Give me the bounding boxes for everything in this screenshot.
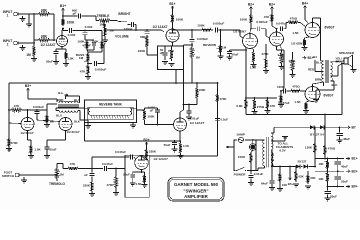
wire 68K to V1a grid [54, 39, 56, 41]
diode BY127 c [296, 165, 300, 169]
capacitor 50uF osc cathode [123, 172, 135, 183]
capacitor 0.002 series [68, 28, 76, 37]
wire recovery plate [180, 105, 184, 119]
svg-text:6.3V: 6.3V [279, 149, 285, 153]
wire tank out [137, 108, 145, 110]
svg-text:BY127: BY127 [298, 160, 307, 164]
phase inverter coupling [277, 46, 285, 91]
capacitor 20uF a [334, 171, 348, 186]
capacitor 0.2uF tremolo [215, 118, 228, 122]
capacitor 64uF doubler [261, 166, 274, 187]
supply B1+ reverb primary [58, 91, 68, 96]
node plate to 600pF tap [62, 15, 64, 18]
svg-text:100K: 100K [197, 24, 205, 28]
svg-text:SPEAKER: SPEAKER [339, 51, 355, 55]
ground 64uF [269, 188, 275, 191]
V2b cathode resistor 1.5K [277, 46, 284, 70]
svg-text:0.005uF: 0.005uF [95, 68, 107, 72]
reverb tank box [85, 100, 137, 123]
supply B3+ reverb [25, 84, 31, 96]
svg-text:64uF: 64uF [261, 181, 268, 185]
wire PT HV bottom [270, 149, 273, 151]
svg-text:BLU: BLU [74, 98, 80, 102]
ground speaker [351, 67, 357, 73]
svg-text:40uF: 40uF [341, 165, 348, 169]
wire V1b plate up [172, 24, 174, 31]
wire bass bottom [87, 63, 92, 65]
svg-text:B3+: B3+ [25, 84, 31, 88]
svg-text:0.005uF: 0.005uF [197, 37, 208, 41]
resistor 100K V1a plate [61, 18, 75, 26]
triode V2a 1/2 6SN7 [233, 29, 257, 48]
title box GARNET MODEL 590 [168, 178, 224, 201]
wire V2b plate [272, 23, 277, 32]
wire treble wiper to volume [104, 25, 105, 27]
wire V2a cathode feedback [245, 49, 247, 98]
supply arrow B1+ rail1 [344, 126, 356, 130]
resistor 1.5K 6V6 lower cathode [294, 100, 310, 113]
svg-text:68K: 68K [41, 35, 48, 39]
wire feedback bus [245, 97, 277, 99]
resistor 1M reverb [45, 110, 54, 124]
svg-text:BLK: BLK [74, 120, 80, 124]
label BLK reverb tx bot [74, 120, 80, 124]
capacitor 0.01uF line [249, 171, 264, 183]
svg-text:2: 2 [7, 43, 9, 47]
resistor 68K lower [34, 35, 55, 42]
supply B1+ second stage [169, 2, 175, 13]
tank ground [130, 123, 136, 129]
svg-text:1.5K: 1.5K [294, 100, 301, 104]
wire V4a plate [24, 104, 57, 118]
resistor 470 ohm riser [323, 115, 335, 160]
svg-text:pF: pF [73, 12, 77, 16]
resistor 47K V2b plate [264, 13, 274, 23]
wire volume wiper [110, 29, 148, 31]
svg-text:1M: 1M [79, 56, 84, 60]
capacitor 20uF b [324, 187, 337, 199]
fuse 1AMP [236, 132, 245, 142]
wire tone to bass pot [87, 40, 99, 52]
svg-text:1M: 1M [26, 53, 31, 57]
svg-text:50uF: 50uF [231, 52, 238, 56]
svg-text:B4+: B4+ [302, 1, 308, 5]
ground 470K [6, 149, 12, 152]
resistor 10K bias [277, 166, 288, 192]
resistor 100K recovery plate [184, 82, 207, 104]
svg-text:47K: 47K [14, 104, 20, 108]
ground osc 50uF [130, 183, 136, 186]
svg-text:470K: 470K [261, 52, 269, 56]
power tube 6V6GT upper [305, 23, 335, 38]
svg-text:BLU: BLU [56, 114, 62, 118]
wire B4+ screen [305, 14, 308, 23]
wire input2 to grid bus [20, 42, 34, 44]
svg-text:470Ω: 470Ω [328, 147, 336, 151]
svg-text:uF: uF [150, 108, 154, 112]
resistor 275 ohm [253, 98, 265, 111]
HV center tap ground [271, 136, 288, 141]
svg-text:220K: 220K [138, 49, 146, 53]
switch POWER [234, 167, 247, 176]
svg-text:33K: 33K [310, 176, 316, 180]
svg-text:B2+: B2+ [269, 2, 275, 6]
capacitor 0.025uF [251, 20, 270, 38]
svg-text:470K: 470K [107, 183, 115, 187]
svg-text:50uF: 50uF [164, 143, 171, 147]
svg-text:6.8K: 6.8K [236, 104, 243, 108]
supply B2+ V2b [269, 2, 275, 13]
svg-text:63K: 63K [298, 174, 304, 178]
svg-text:B1+: B1+ [60, 4, 66, 8]
wire tx secondary blk [78, 111, 88, 126]
wire volume to V1b grid [147, 30, 164, 32]
wire bright left [117, 21, 120, 22]
svg-text:0.001uF: 0.001uF [33, 105, 44, 109]
svg-text:REVERB TANK: REVERB TANK [99, 103, 122, 107]
svg-text:BY127 X4: BY127 X4 [310, 133, 324, 137]
wire V4 grid b [37, 118, 60, 122]
svg-text:6V6GT: 6V6GT [324, 25, 334, 29]
svg-text:RED: RED [58, 98, 64, 102]
svg-text:1/2 6CG7: 1/2 6CG7 [20, 131, 34, 135]
capacitor 470pF tone [82, 40, 96, 50]
svg-text:1/2 12AX7: 1/2 12AX7 [40, 43, 55, 47]
wire 600pF to treble [82, 16, 97, 21]
wire slope cap down [85, 35, 87, 40]
cathode join wires [28, 131, 66, 145]
wire plate to coupling [63, 29, 68, 31]
wire V1b cathode into box [172, 42, 174, 46]
ground input bus [26, 14, 32, 27]
capacitor 50uF reverb cathode [45, 144, 57, 155]
svg-text:REVERB: REVERB [203, 43, 217, 47]
wire tx secondary to tank [56, 108, 85, 111]
svg-text:B0+: B0+ [352, 185, 358, 189]
capacitor 600pF [72, 9, 81, 19]
svg-text:0.047uF: 0.047uF [115, 150, 126, 154]
resistor 1.5K cathode box [168, 46, 175, 61]
triode V4a 1/2 6CG7 [20, 118, 34, 135]
wire tank return long [85, 123, 181, 142]
svg-text:100K: 100K [176, 18, 184, 22]
resistor 470K foot bus [7, 137, 18, 148]
svg-text:B1+: B1+ [352, 157, 358, 161]
wire recovery cathode [174, 131, 181, 142]
resistor 150K lamp [238, 150, 253, 171]
svg-text:470K: 470K [220, 97, 228, 101]
resistor 470K phase [107, 169, 119, 196]
tank output coil [130, 108, 137, 115]
capacitor 0.047uF phase1 [102, 162, 125, 171]
ground osc 1.5K [142, 185, 148, 188]
diode BY127 d [272, 160, 315, 169]
supply arrow B5+ rail4 [346, 185, 358, 189]
resistor 220K tremolo plate [145, 148, 157, 160]
triode V4b 1/2 6CG7 [59, 118, 80, 134]
wire reverb node to V2a grid [221, 30, 244, 38]
capacitor 0.047uF lower [278, 89, 289, 106]
svg-text:1/2 6SN7: 1/2 6SN7 [291, 42, 304, 46]
svg-text:AMPLIFIER: AMPLIFIER [184, 194, 208, 199]
svg-text:680pF: 680pF [140, 35, 149, 39]
svg-text:B1+: B1+ [58, 91, 64, 95]
svg-text:220K: 220K [83, 183, 91, 187]
svg-text:BRIGHT: BRIGHT [118, 12, 130, 16]
svg-text:RED: RED [308, 68, 314, 72]
capacitor 0.002 slope [83, 25, 93, 34]
wire bus to foot line [8, 149, 10, 153]
svg-text:20uF: 20uF [330, 194, 337, 198]
svg-text:0.2uF: 0.2uF [221, 118, 229, 122]
label BLU OT [316, 60, 322, 64]
svg-text:B2+: B2+ [143, 138, 149, 142]
wire V1a plate [62, 28, 64, 36]
svg-text:B7: B7 [352, 126, 356, 130]
output transformer [321, 60, 333, 86]
capacitor 0.005uF coupling [213, 21, 225, 32]
svg-text:100K: 100K [67, 21, 75, 25]
ground reverb pot [218, 54, 224, 59]
V2a cathode 50uF [227, 48, 246, 57]
potentiometer REVERB 1M [203, 43, 227, 54]
svg-text:130pF: 130pF [124, 27, 133, 31]
wire 600pF branch [63, 15, 78, 17]
svg-text:0.002: 0.002 [68, 33, 76, 37]
reverb driver transformer [58, 101, 79, 112]
treble wiper arrow [103, 21, 105, 27]
diode BY127 a [310, 125, 314, 129]
resistor 100K V1b plate [171, 13, 184, 24]
supply B1+ first stage [60, 4, 66, 18]
svg-text:220K: 220K [149, 150, 157, 154]
resistor 47K reverb grid [8, 104, 24, 111]
svg-text:1.5K: 1.5K [277, 53, 284, 57]
capacitor 48uF [336, 127, 350, 141]
wire feedback line [246, 63, 343, 116]
ground under 1M [31, 59, 37, 62]
wire 130K node to rail2 [314, 159, 316, 167]
svg-text:0.025uF: 0.025uF [256, 20, 268, 24]
capacitor 0.047uF to 6V6 [276, 21, 287, 31]
resistor 470K tremolo line [216, 93, 227, 103]
resistor 100K mixer [197, 24, 213, 32]
svg-text:BRN: BRN [315, 77, 321, 81]
svg-text:1/2 12AX7: 1/2 12AX7 [153, 157, 168, 161]
resistor 130K doubler [305, 126, 317, 167]
triode V1b 1/2 12AX7 [152, 25, 179, 42]
svg-text:100K: 100K [277, 85, 285, 89]
svg-text:470Ω: 470Ω [290, 16, 298, 20]
wire input1 to grid bus [20, 13, 34, 15]
svg-text:B2+: B2+ [352, 169, 358, 173]
resistor 1.5K osc cathode [135, 172, 146, 186]
rail3 B2+ wire [315, 170, 344, 172]
capacitor 680pF [140, 32, 149, 39]
svg-text:0.005uF: 0.005uF [213, 21, 225, 25]
svg-text:0.01uF: 0.01uF [254, 172, 264, 176]
wire bus down left [8, 83, 10, 137]
svg-text:1.5K: 1.5K [135, 182, 142, 186]
svg-text:68K: 68K [41, 9, 48, 13]
resistor 33K bleed [305, 171, 316, 189]
svg-text:TREMOLO: TREMOLO [49, 182, 65, 186]
resistor 1.5K recovery cathode [178, 141, 190, 159]
svg-text:47K: 47K [70, 162, 76, 166]
ground cathode resistor [169, 64, 175, 67]
resistor 10K ladder1 [318, 158, 329, 172]
volume wiper arrow [105, 29, 110, 31]
svg-text:uF: uF [160, 51, 164, 55]
supply B1+ tail [302, 56, 314, 60]
AC input terminal [226, 146, 234, 148]
svg-text:B1+: B1+ [169, 2, 175, 6]
supply B2+ V2a [248, 2, 254, 13]
ground 50uF recovery [172, 149, 178, 152]
wire riser join [104, 43, 105, 45]
speaker SPEAKER [331, 51, 355, 76]
svg-text:47K: 47K [80, 69, 86, 73]
potentiometer TREBLE 1M [96, 14, 113, 26]
wire row2 from PT [271, 150, 273, 167]
svg-text:1/2 12AX7: 1/2 12AX7 [152, 25, 167, 29]
potentiometer BASS 1M [76, 52, 90, 63]
wire PT HV top [271, 127, 274, 133]
rail4 B5+ wire [327, 186, 344, 188]
svg-text:470pF: 470pF [82, 43, 91, 47]
svg-text:1AMP: 1AMP [236, 132, 245, 136]
label BLU reverb tx top [74, 98, 80, 102]
label YEL/GRN OT [335, 56, 342, 63]
label BRN OT [315, 77, 321, 81]
ground 1M reverb [44, 125, 50, 128]
svg-text:GARNET MODEL 590: GARNET MODEL 590 [174, 182, 219, 187]
svg-text:SWITCH: SWITCH [2, 174, 15, 178]
svg-text:0.047uF: 0.047uF [102, 162, 113, 166]
svg-text:1M: 1M [222, 45, 227, 49]
wire foot switch [21, 174, 56, 176]
svg-text:B2+: B2+ [248, 2, 254, 6]
svg-text:47K: 47K [264, 15, 270, 19]
wire osc cathode [133, 170, 145, 173]
resistor 1M V2a grid leak [190, 45, 200, 83]
resistor 6.8K feedback [236, 98, 247, 115]
svg-text:0.047uF: 0.047uF [276, 21, 287, 25]
svg-text:10K: 10K [318, 177, 324, 181]
ground 48uF [337, 140, 343, 143]
label RED reverb tx [58, 98, 64, 102]
ground 1.5K V1a [63, 64, 69, 67]
svg-text:275Ω: 275Ω [257, 105, 265, 109]
resistor 220K phase [83, 180, 95, 197]
wire V2a plate [250, 25, 252, 35]
svg-text:10K: 10K [318, 162, 324, 166]
svg-text:48uF: 48uF [343, 137, 350, 141]
svg-text:100K: 100K [198, 88, 206, 92]
wire grids tie [9, 122, 21, 125]
wire recovery grid [145, 114, 174, 125]
svg-text:50uF: 50uF [49, 148, 56, 152]
resistor 68K upper [34, 9, 54, 41]
supply arrow B2+ rail3 [346, 169, 358, 173]
input jack INPUT 2 [3, 39, 20, 47]
ground 47K bass [85, 77, 91, 80]
resistor 470 lower grid [289, 84, 306, 92]
wire 6V6 lower plate to OT [313, 82, 324, 87]
ground at input 2 sleeve [20, 45, 26, 51]
resistor 1.5K reverb cathode [29, 144, 41, 155]
tank input coil [85, 108, 91, 115]
switch BRIGHT [118, 12, 130, 26]
ground reverb cathode 2 [44, 156, 50, 159]
svg-text:1.5K: 1.5K [34, 148, 41, 152]
wire OT BLK lead [316, 81, 338, 99]
svg-text:POWER: POWER [234, 173, 246, 177]
capacitor 50uF recovery cathode [164, 141, 177, 149]
resistor 100K lower grid leak [277, 85, 285, 107]
supply B2+ tremolo [143, 138, 149, 148]
ground foot switch [21, 177, 27, 183]
svg-text:1.5K: 1.5K [67, 56, 74, 60]
wire treble right to bright [104, 21, 116, 26]
wire tremolo line vertical [217, 82, 219, 156]
wire 47K to phase net [80, 168, 103, 170]
label RED OT [308, 55, 324, 72]
wire 6V6 plate to OT [313, 18, 321, 61]
svg-text:B5+: B5+ [288, 182, 294, 186]
power tube 6V6GT lower [305, 87, 334, 102]
wire plate output [173, 29, 201, 31]
svg-text:TREBLE: TREBLE [97, 14, 110, 18]
ground 50uF V1a [53, 62, 59, 65]
svg-text:100K: 100K [91, 40, 99, 44]
svg-text:"SWINGER": "SWINGER" [183, 188, 208, 193]
svg-text:100K: 100K [240, 17, 248, 21]
svg-text:1M: 1M [59, 172, 64, 176]
svg-text:uF: uF [84, 173, 88, 177]
supply B4+ output [302, 1, 308, 14]
svg-text:0.002: 0.002 [85, 25, 93, 29]
ground at input 1 sleeve [20, 16, 26, 22]
svg-text:1M: 1M [99, 22, 104, 26]
ground reverb cathode 1 [28, 156, 34, 159]
resistor 1.5K V2a cathode [250, 48, 257, 70]
cathode box outline [158, 46, 184, 70]
wire tx top right [66, 96, 80, 103]
wire V1a cathode [56, 47, 66, 52]
resistor 1.5K 6V6 upper cathode [292, 31, 310, 51]
ground 20uF b [325, 198, 331, 201]
ground under volume pot [102, 38, 108, 43]
wire to reverb pot [220, 30, 222, 44]
resistor 63K bleed [293, 166, 304, 187]
svg-text:100K: 100K [148, 114, 156, 118]
capacitor 50uF V1a cathode [46, 52, 58, 64]
potentiometer VOLUME 1M [103, 25, 128, 39]
svg-text:1/2 12AX7: 1/2 12AX7 [190, 121, 205, 125]
ground 275 ohm [252, 112, 258, 115]
svg-text:1M: 1M [196, 56, 201, 60]
wire box riser to reverb recovery [183, 70, 185, 106]
wire tremolo plate [142, 156, 147, 160]
svg-text:1.5K: 1.5K [292, 31, 299, 35]
svg-text:B4: B4 [313, 55, 317, 59]
ground 47K feedback [265, 111, 271, 114]
resistor 100K tone [77, 40, 88, 50]
wire grid bus vertical [33, 13, 35, 44]
wire cap riser [98, 45, 105, 64]
svg-text:470K: 470K [11, 141, 19, 145]
